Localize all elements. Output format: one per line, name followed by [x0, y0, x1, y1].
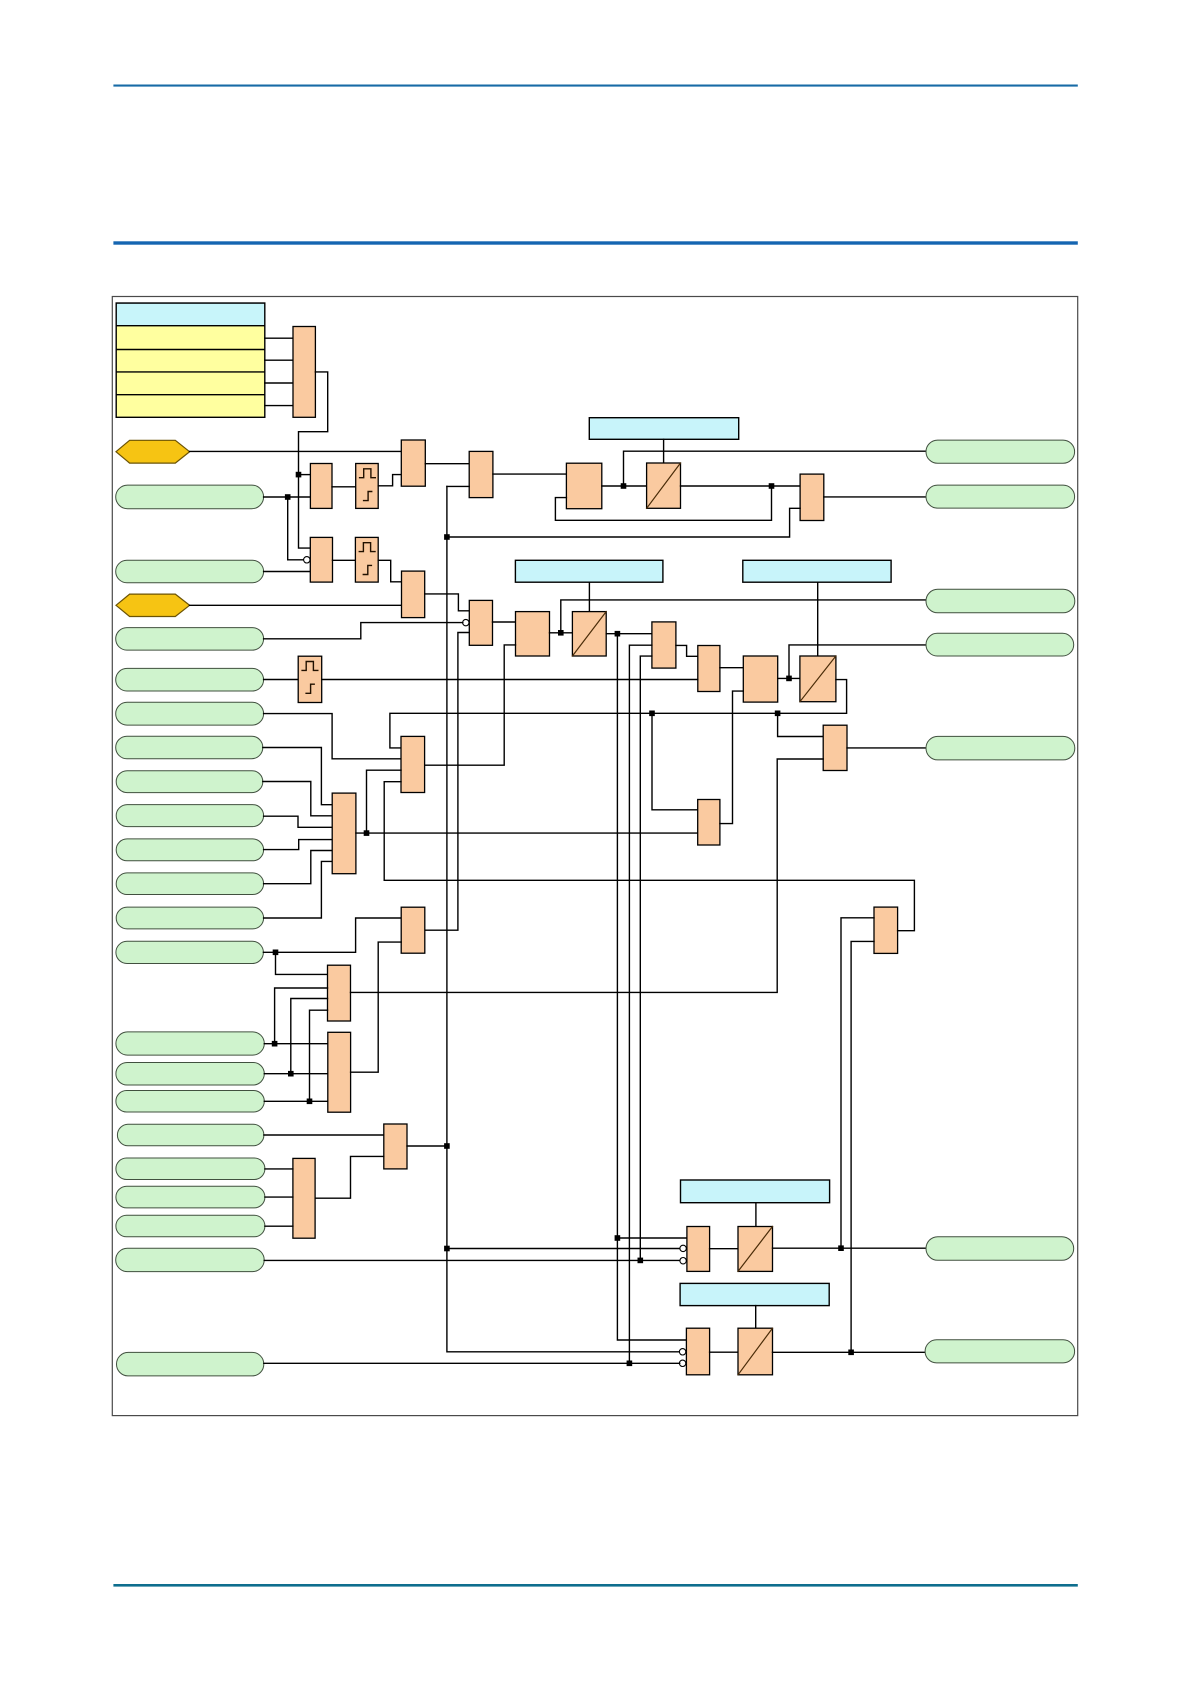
wire A' to pulse shaper PS2	[333, 559, 356, 561]
figure frame	[112, 297, 1077, 1416]
wire table row3 to selector	[265, 382, 293, 384]
register table	[116, 303, 265, 417]
input pill P10	[116, 873, 263, 895]
node J D1out	[769, 483, 775, 489]
block B17	[384, 1124, 407, 1169]
wire hexagon1 to block B1	[190, 450, 402, 452]
block B3	[566, 463, 601, 509]
wire P19 to B18	[265, 1225, 293, 1227]
block B9	[401, 907, 425, 953]
wire selector output to comparator A'	[299, 372, 328, 548]
wire B14 output to B12 lower input	[720, 691, 743, 824]
input pill P13	[116, 1032, 264, 1055]
output pill R6	[926, 1237, 1074, 1261]
wire branch to output pill R4	[789, 645, 926, 679]
node J netR 1146	[444, 1143, 450, 1149]
net R vertical	[446, 486, 448, 1248]
input pill P8	[116, 805, 263, 827]
wire P13 to stack S2	[264, 1043, 328, 1045]
divider D5	[738, 1328, 773, 1375]
comparator A'	[310, 537, 332, 582]
block B6	[469, 600, 492, 645]
block B10	[652, 622, 676, 668]
wire netR branch to B16 bubble	[447, 1248, 680, 1250]
node J P12	[273, 950, 279, 956]
wire B8 output up to B7 lower input	[425, 645, 516, 765]
wire B16 to divider D4	[710, 1248, 738, 1250]
io pill P20	[116, 1248, 265, 1271]
node Ja	[615, 1235, 621, 1241]
node J B3out	[621, 483, 627, 489]
wire P12 branch to stack S1	[276, 952, 328, 974]
wire table row1 to selector	[265, 337, 293, 339]
wire B3 output to divider D1	[602, 485, 647, 487]
node J4	[775, 711, 781, 717]
wire B12 to divider D3	[778, 677, 800, 679]
block B14	[698, 800, 720, 846]
mux block M1	[332, 793, 356, 874]
wire J0 branch to comparator A	[299, 474, 311, 476]
stack block S2	[328, 1032, 351, 1112]
wire B13 to output pill R5	[847, 747, 926, 749]
node J0	[296, 472, 302, 478]
block B2	[469, 451, 493, 497]
wire branch to B14	[652, 713, 698, 810]
bubble B19 low	[679, 1360, 685, 1366]
block B19	[686, 1328, 709, 1375]
bubble A' input	[304, 557, 310, 563]
block B18 group	[293, 1158, 315, 1238]
block B16	[687, 1227, 710, 1272]
output pill R2	[926, 485, 1075, 508]
io pill P21	[117, 1352, 264, 1376]
net C vertical from B10	[640, 656, 652, 1260]
wire P18 to B18	[265, 1196, 293, 1198]
wire B15 output loop to B8 input	[384, 782, 914, 931]
wire P1 to comparator A	[264, 496, 311, 498]
wire B9 output up to B6 lower input	[425, 633, 470, 931]
input pill P14	[116, 1063, 264, 1086]
label box L3	[743, 560, 891, 582]
wire L2 stem to D2	[588, 582, 590, 611]
wire B10 to block B11	[676, 645, 698, 656]
wire hexagon2 to block B5	[190, 604, 402, 606]
wire B5 to block B6	[425, 594, 470, 611]
net R top corner wire to B2	[447, 485, 469, 487]
input pill P15	[116, 1091, 264, 1113]
wire A to pulse shaper PS1	[332, 486, 356, 488]
wire P21 to B19 bubble	[264, 1362, 680, 1364]
node J B12out	[786, 676, 792, 682]
wire D5 to output pill R7	[773, 1351, 926, 1353]
divider D1	[647, 463, 681, 508]
input pill P7	[116, 771, 263, 793]
wire P9 to mux	[264, 840, 333, 850]
input pill P5	[116, 702, 264, 725]
wire B11 to block B12	[720, 667, 743, 669]
block B8	[401, 736, 425, 792]
input pill P3	[116, 628, 264, 651]
bubble B16 mid	[680, 1245, 686, 1251]
input pill P17	[116, 1158, 265, 1180]
wire S1 output to B13 lower input	[351, 759, 824, 992]
input hexagon pin 1	[116, 440, 190, 463]
wire P5 to block B8	[264, 714, 401, 759]
block B11	[698, 646, 720, 692]
input pill P12	[116, 941, 264, 963]
header rule	[113, 85, 1077, 87]
wire B17 output to net R	[407, 1145, 447, 1147]
wire P10 to mux	[264, 851, 333, 884]
input pill P1	[116, 485, 264, 509]
wire PS1 to block B1	[378, 475, 401, 486]
wire P17 to B18	[265, 1168, 293, 1170]
input pill P6	[116, 736, 263, 759]
node J P21	[627, 1361, 633, 1367]
output pill R5	[926, 736, 1075, 760]
footer rule	[113, 1584, 1077, 1587]
register selector block U1	[293, 327, 315, 418]
block B13	[823, 725, 847, 770]
wire J4 branch to B13	[778, 713, 824, 736]
input pill P11	[116, 907, 263, 929]
wire B7 to divider D2	[550, 632, 573, 634]
wire P13 branch to S1	[275, 988, 328, 1044]
divider D3	[800, 656, 836, 702]
wire D1 to block B4	[681, 485, 801, 487]
node J D2out	[615, 631, 621, 637]
wire P6 to mux	[263, 748, 332, 805]
wire P15 to stack S2	[264, 1100, 328, 1102]
wire PS3 to B11	[322, 679, 698, 681]
wire B19 to divider D5	[710, 1351, 738, 1353]
pulse shaper PS2	[355, 537, 378, 582]
node J muxout	[364, 830, 370, 836]
divider D4	[738, 1227, 773, 1272]
block B7	[516, 612, 550, 656]
wire mux branch to B8 input	[367, 770, 402, 833]
wire P12 to B9	[263, 918, 401, 952]
block B1	[401, 440, 425, 486]
wire P4 to pulse shaper PS3	[264, 679, 299, 681]
output pill R3	[926, 589, 1075, 613]
output pill R1	[926, 440, 1075, 463]
wire P15 branch to S1	[310, 1010, 328, 1101]
bubble B16 low	[680, 1258, 686, 1264]
net B vertical from B10	[629, 645, 652, 1363]
node J B7out	[558, 630, 564, 636]
wire P2 to comparator A'	[264, 571, 311, 573]
wire D4 branch up to B15	[841, 918, 874, 1248]
node J P15	[307, 1099, 313, 1105]
label box L5	[680, 1283, 829, 1305]
divider D2	[572, 612, 606, 656]
wire L3 stem to D3	[817, 582, 819, 656]
wire long net to B4 lower input	[447, 508, 800, 537]
wire PS2 to block B5	[378, 560, 401, 582]
wire D2 to block B10	[606, 633, 652, 635]
output pill R4	[926, 633, 1074, 656]
block B5	[402, 571, 425, 618]
pulse shaper PS3	[298, 656, 322, 702]
node J netR 1248	[444, 1246, 450, 1252]
wire P20 to B16 bubble	[264, 1259, 680, 1261]
block B12	[743, 656, 777, 702]
wire L5 stem to D5	[755, 1306, 757, 1329]
input pill P19	[116, 1215, 265, 1237]
wire P14 branch to S1	[291, 999, 328, 1074]
wire P8 to mux	[264, 816, 333, 827]
net A vertical to bottom blocks	[617, 634, 686, 1340]
wire B4 to output pill R2	[824, 496, 926, 498]
wire P11 to mux	[264, 861, 333, 918]
input pill P2	[116, 560, 264, 582]
wire S2 output to B9 lower input	[351, 942, 402, 1072]
wire B2 to block B3	[493, 473, 567, 475]
wire L1 stem to D1	[663, 439, 665, 463]
wire table row4 to selector	[265, 405, 293, 407]
section rule	[113, 241, 1077, 244]
wire B18 output to B17 lower input	[315, 1156, 384, 1198]
block B4	[800, 474, 824, 520]
output pill R7	[925, 1340, 1075, 1363]
pulse shaper PS1	[356, 464, 379, 509]
net D wire D3 output loop	[390, 680, 847, 748]
wire branch to output pill R1	[624, 451, 927, 486]
wire P3 to B6 bubble	[264, 623, 463, 639]
block B15 offset	[874, 907, 898, 953]
input hexagon pin 2	[116, 594, 190, 616]
wire table row2 to selector	[265, 359, 293, 361]
wire mux output to B14	[356, 832, 698, 834]
node J P1	[285, 494, 291, 500]
wire branch to output pill R3	[561, 600, 926, 633]
input pill P16	[117, 1124, 264, 1146]
label box L4	[681, 1180, 830, 1203]
stack block S1	[328, 965, 351, 1021]
wire Ja branch to B16	[617, 1237, 687, 1239]
wire P1 branch to A' bubble	[288, 497, 304, 560]
input pill P9	[116, 839, 263, 861]
input pill P18	[116, 1186, 265, 1208]
node J P13	[272, 1041, 278, 1047]
wire B1 to block B2	[425, 463, 469, 465]
label box L1	[589, 418, 738, 440]
wire D4 to output pill R6	[773, 1247, 927, 1249]
label box L2	[515, 560, 663, 582]
bubble B19 mid	[679, 1349, 685, 1355]
node J D4out	[838, 1245, 844, 1251]
node J D5out	[848, 1350, 854, 1356]
bubble B6 input	[463, 619, 469, 625]
wire netR down to B18 bubble	[447, 1249, 680, 1352]
wire feedback D1 to B3	[555, 486, 771, 520]
input pill P4	[116, 668, 264, 691]
wire D5 branch up to B15 lower input	[851, 941, 874, 1352]
wire P14 to stack S2	[264, 1073, 328, 1075]
node J netD mid	[649, 711, 655, 717]
wire B6 to block B7	[493, 621, 516, 623]
node J P14	[288, 1071, 294, 1077]
wire L4 stem to D4	[755, 1203, 757, 1227]
wire P7 to mux	[263, 782, 332, 816]
comparator A	[310, 464, 332, 509]
wire P16 to B17	[264, 1134, 384, 1136]
node J netR 537	[444, 534, 450, 540]
node Jb	[638, 1258, 644, 1264]
